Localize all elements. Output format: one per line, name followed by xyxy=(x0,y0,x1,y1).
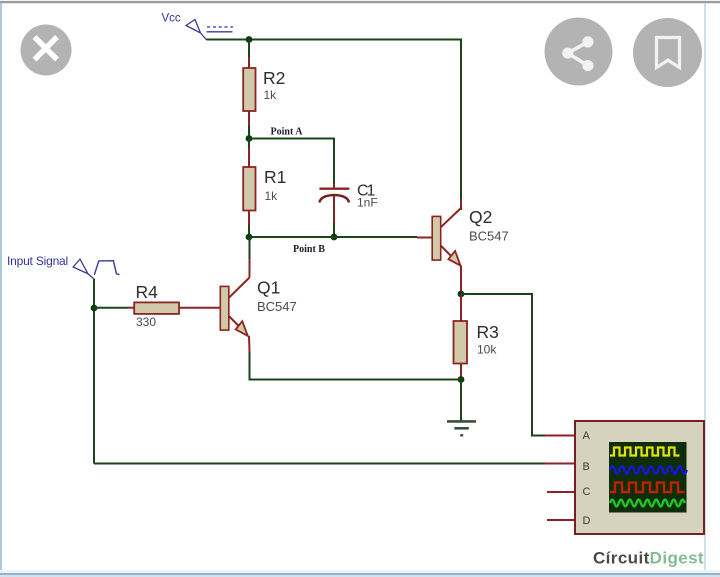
R1 value label 1k xyxy=(265,189,279,203)
R3 value label 10k xyxy=(477,343,497,357)
node ground junction xyxy=(458,376,465,383)
pin R2 top xyxy=(248,57,250,68)
pin R1 top xyxy=(248,148,250,167)
bottom page border xyxy=(0,570,720,573)
svg-text:1nF: 1nF xyxy=(357,196,378,210)
resistor R3 xyxy=(454,321,468,364)
node junction top (R2 tap) xyxy=(246,36,253,43)
pin R2 bottom xyxy=(248,111,250,126)
svg-text:10k: 10k xyxy=(477,343,497,357)
pin R3 bottom xyxy=(460,364,462,380)
pin R1 bottom xyxy=(248,211,250,226)
left page border xyxy=(0,3,2,572)
svg-text:Q2: Q2 xyxy=(469,207,492,227)
scope channel label B xyxy=(583,461,590,473)
wire Q1 collector to Point B xyxy=(249,237,251,259)
C1 designator label xyxy=(357,183,376,200)
transistor Q1 xyxy=(220,278,249,336)
Q2 designator label xyxy=(469,207,492,227)
input signal source symbol xyxy=(73,259,119,278)
wire input to R4 xyxy=(94,307,128,309)
wire emitter node to scope A (right then down) xyxy=(461,294,545,436)
svg-text:1k: 1k xyxy=(264,88,278,102)
pin scope input D stub xyxy=(547,519,575,521)
Q1 value label BC547 xyxy=(257,299,297,314)
bookmark button xyxy=(633,18,702,87)
svg-text:D: D xyxy=(583,515,591,527)
pin C1 bottom lead red xyxy=(333,196,335,224)
pin Q2 base lead xyxy=(417,237,432,239)
pin R4 right to Q1 base xyxy=(179,307,220,309)
pin Q2 emitter red xyxy=(460,266,462,295)
svg-text:R3: R3 xyxy=(477,322,499,342)
svg-text:B: B xyxy=(583,461,590,473)
pin Q2 collector red xyxy=(460,199,462,210)
svg-text:C: C xyxy=(583,486,591,498)
R1 designator label xyxy=(264,167,286,187)
pin Q1 collector red xyxy=(249,259,251,278)
wire top-right vertical to Q2 collector xyxy=(460,39,462,200)
pin scope input B stub xyxy=(545,463,575,465)
svg-text:BC547: BC547 xyxy=(469,229,509,244)
node input junction xyxy=(91,305,98,312)
svg-text:A: A xyxy=(583,430,591,442)
transistor Q2 xyxy=(432,208,461,266)
Input Signal label xyxy=(7,254,68,268)
top dark strip xyxy=(0,0,720,1)
svg-text:R1: R1 xyxy=(264,167,286,187)
close button xyxy=(21,25,72,76)
scope trace A yellow square wave xyxy=(610,448,680,456)
node Q2 emitter junction xyxy=(458,291,465,298)
node Point B junction left xyxy=(246,234,253,241)
right page border xyxy=(704,3,706,572)
power Vcc symbol xyxy=(186,20,233,40)
scope trace B blue sine wave xyxy=(610,466,687,474)
wire C1 top vertical xyxy=(333,138,335,185)
svg-text:R2: R2 xyxy=(263,68,285,88)
wire R2 top lead green xyxy=(248,40,250,58)
oscilloscope U1 xyxy=(575,421,704,534)
R3 designator label xyxy=(477,322,499,342)
R4 value label 330 xyxy=(136,315,156,329)
wire input signal bottom run to scope B xyxy=(94,463,545,465)
node Point A label xyxy=(271,127,304,138)
R4 designator label xyxy=(136,282,159,302)
wire Q1 emitter run to ground node xyxy=(250,352,462,380)
svg-text:Vcc: Vcc xyxy=(162,13,181,25)
svg-text:Point A: Point A xyxy=(271,127,304,138)
wire Point B horizontal xyxy=(249,236,417,238)
resistor R2 xyxy=(243,68,255,111)
Q1 designator label xyxy=(257,278,280,298)
node Point B junction at C1 xyxy=(331,234,338,241)
pin Q1 emitter red xyxy=(248,336,251,352)
wire C1 bottom to Point B xyxy=(333,223,335,237)
svg-text:1k: 1k xyxy=(265,189,279,203)
pin scope input A stub xyxy=(545,435,575,437)
svg-text:R4: R4 xyxy=(136,282,159,302)
scope trace C red square wave xyxy=(610,483,685,492)
pin scope input C stub xyxy=(547,491,575,493)
node Point A junction xyxy=(246,135,253,142)
svg-text:BC547: BC547 xyxy=(257,299,297,314)
scope channel label A xyxy=(583,430,591,442)
capacitor C1 xyxy=(319,189,349,203)
C1 value label 1nF xyxy=(357,196,378,210)
Q2 value label BC547 xyxy=(469,229,509,244)
wire Point A horizontal to C1 xyxy=(249,138,334,140)
scope channel label D xyxy=(583,515,591,527)
svg-text:CírcuitDigest: CírcuitDigest xyxy=(593,549,704,568)
wire input vertical down xyxy=(93,279,95,464)
ground xyxy=(447,380,476,436)
resistor R4 xyxy=(134,302,179,314)
R2 value label 1k xyxy=(264,88,278,102)
svg-text:330: 330 xyxy=(136,315,156,329)
node Point B label xyxy=(293,244,325,255)
Vcc label xyxy=(162,13,181,25)
wire R2 bottom to Point A xyxy=(248,126,250,139)
share button xyxy=(545,18,613,86)
svg-text:Input Signal: Input Signal xyxy=(7,254,68,268)
wire R1 top lead green xyxy=(248,139,250,149)
scope channel label C xyxy=(583,486,591,498)
CircuitDigest logo xyxy=(593,549,704,568)
pin R4 left xyxy=(128,307,134,309)
svg-text:Point B: Point B xyxy=(293,244,325,255)
wire R1 bottom to Point B xyxy=(248,225,250,237)
svg-text:Q1: Q1 xyxy=(257,278,280,298)
resistor R1 xyxy=(243,167,255,211)
scope trace D green sine wave xyxy=(610,500,685,507)
pin C1 top lead red xyxy=(333,184,335,188)
pin R3 top xyxy=(460,294,462,321)
R2 designator label xyxy=(263,68,285,88)
wire Vcc top horizontal xyxy=(207,39,462,41)
